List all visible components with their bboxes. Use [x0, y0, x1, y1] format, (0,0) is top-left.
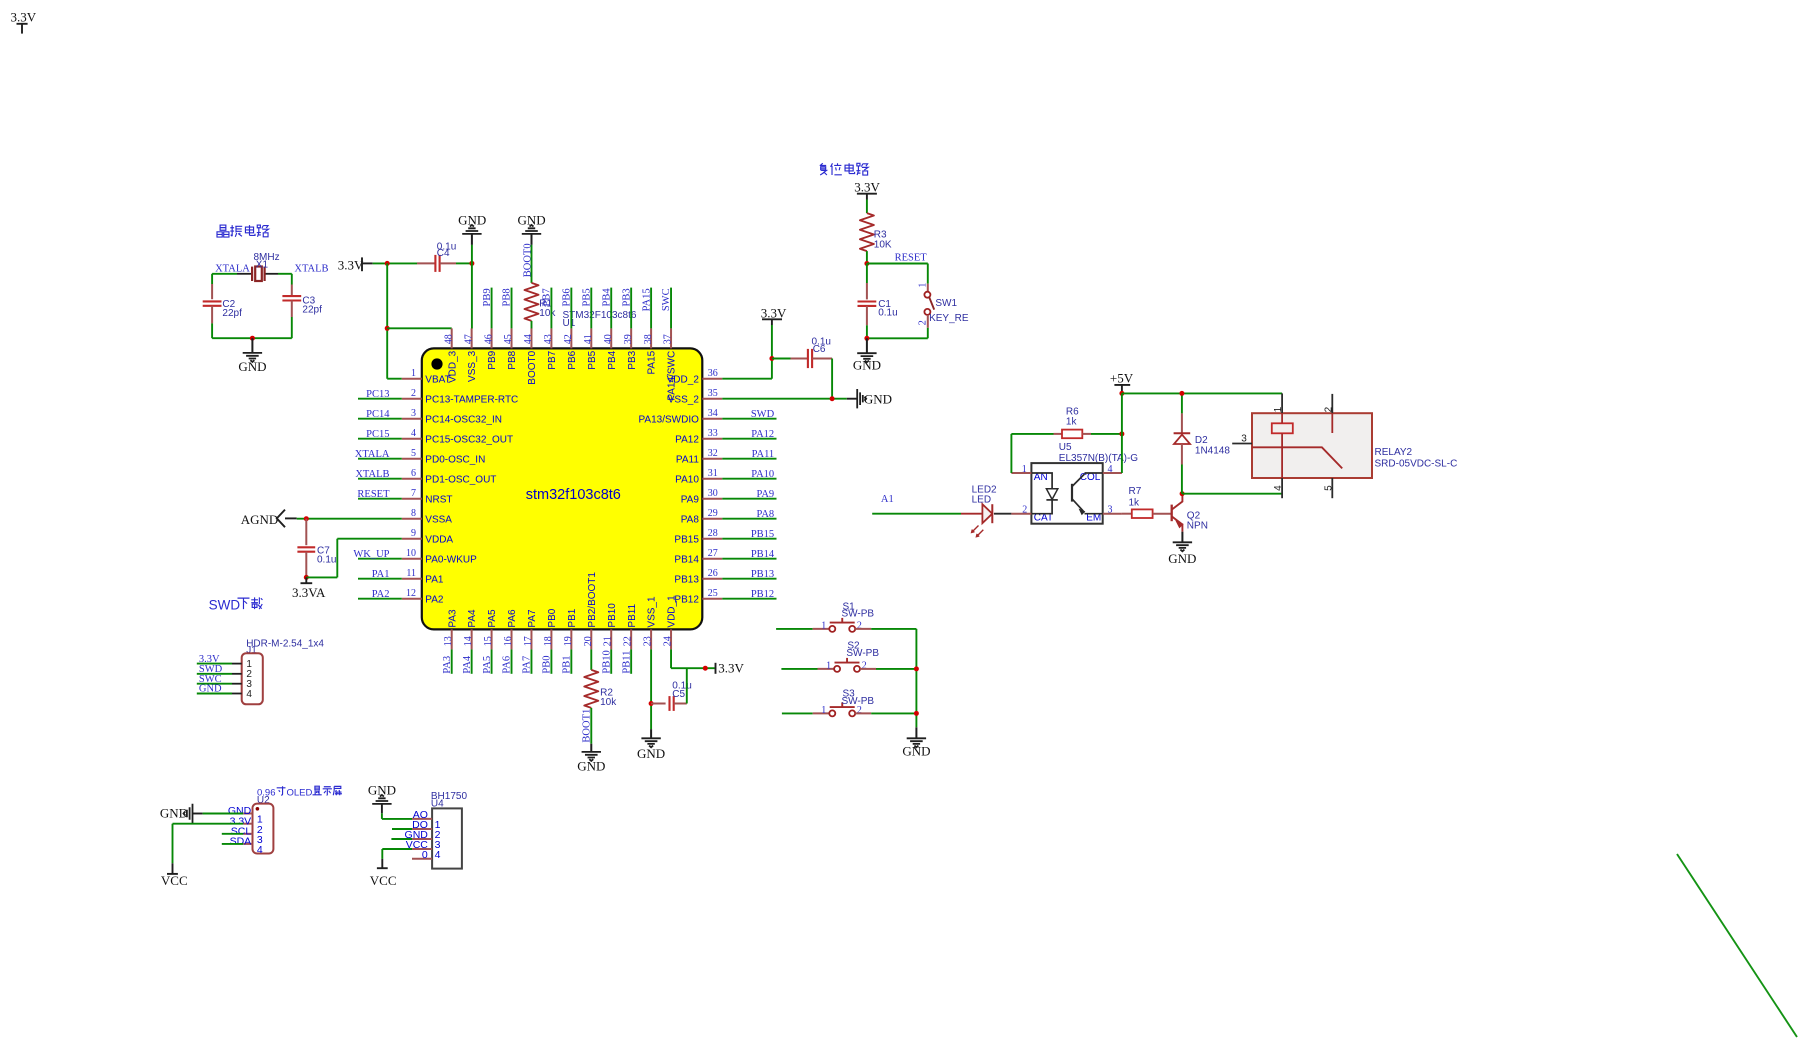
- wire to SW1 pin1: [927, 264, 929, 284]
- svg-text:KEY_RE: KEY_RE: [929, 313, 969, 324]
- svg-text:PB0: PB0: [542, 656, 553, 674]
- svg-text:PA13/SWDIO: PA13/SWDIO: [639, 414, 700, 425]
- svg-text:XTALA: XTALA: [355, 449, 390, 460]
- wire C6 down to VSS_2 net: [831, 359, 833, 399]
- wire VBAT branch vertical: [386, 263, 388, 378]
- svg-text:1: 1: [826, 660, 831, 671]
- svg-text:41: 41: [583, 334, 594, 344]
- wire RESET bottom rail: [867, 337, 928, 339]
- relay switch contact: [1252, 447, 1342, 468]
- wire R6 to +5V rail: [1082, 433, 1091, 435]
- wire net PA3 (bottom pin 13): [451, 649, 453, 673]
- svg-text:31: 31: [708, 468, 718, 479]
- wire net PB4 (top pin 40): [610, 288, 612, 329]
- svg-text:21: 21: [603, 636, 614, 646]
- pin 26 PB13 (right): [702, 578, 722, 580]
- svg-text:VSSA: VSSA: [425, 514, 452, 525]
- svg-text:PA0-WKUP: PA0-WKUP: [425, 554, 477, 565]
- svg-text:GND: GND: [864, 392, 892, 407]
- svg-text:BOOT0: BOOT0: [523, 243, 534, 277]
- relay pin 2: [1331, 394, 1333, 413]
- svg-text:48: 48: [443, 334, 454, 344]
- svg-text:4: 4: [257, 844, 263, 856]
- wire to S1 pin1: [776, 628, 813, 630]
- svg-text:VDD_1: VDD_1: [667, 595, 678, 628]
- svg-text:PB10: PB10: [601, 650, 612, 673]
- wire R7 to Q2 base: [1153, 513, 1172, 515]
- wire AGND to pin8 VSSA: [297, 518, 402, 520]
- svg-text:SDA: SDA: [230, 836, 252, 848]
- relay coil lead pin1-4: [1281, 433, 1283, 478]
- svg-text:PA5: PA5: [487, 609, 498, 628]
- svg-text:LED: LED: [972, 495, 991, 506]
- pin 8 VSSA (left): [402, 518, 422, 520]
- power port VCC (U2): [172, 863, 174, 874]
- svg-text:18: 18: [543, 636, 554, 646]
- svg-text:HDR-M-2.54_1x4: HDR-M-2.54_1x4: [246, 639, 324, 650]
- wire stray diagonal (bottom right): [1677, 854, 1797, 1037]
- svg-text:PA15: PA15: [641, 288, 652, 311]
- svg-text:SW-PB: SW-PB: [842, 609, 875, 620]
- relay pin 1: [1281, 393, 1283, 413]
- pin 44 BOOT0 (top): [530, 328, 532, 348]
- wire net PB14 (right pin 27): [722, 558, 776, 560]
- ground crystal GND: [251, 338, 253, 353]
- wire net PA4 (bottom pin 14): [471, 649, 473, 673]
- svg-text:C4: C4: [437, 248, 450, 259]
- pin 3 of U4 (GND): [412, 838, 432, 840]
- svg-text:NRST: NRST: [425, 494, 452, 505]
- svg-text:43: 43: [543, 334, 554, 344]
- pin 21 PB10 (bottom): [610, 629, 612, 649]
- pin 3 of U2 (SCL): [243, 833, 252, 835]
- svg-text:PA12: PA12: [751, 429, 774, 440]
- wire R1 to pin44 BOOT0: [531, 321, 533, 329]
- svg-text:RESET: RESET: [895, 252, 928, 263]
- pin 4 of J1 (GND): [232, 693, 242, 695]
- wire GND to U4 pin1: [381, 813, 383, 819]
- wire net PC13 (left pin 2): [358, 398, 402, 400]
- pin 22 PB11 (bottom): [630, 629, 632, 649]
- pin 0 of U4: [412, 858, 432, 860]
- pin 18 PB0 (bottom): [550, 629, 552, 649]
- wire net PA2 (left pin 12): [358, 598, 402, 600]
- relay pin 4: [1281, 478, 1283, 498]
- junction RESET node: [864, 261, 869, 266]
- svg-text:BOOT1: BOOT1: [582, 709, 593, 743]
- svg-text:VDD_3: VDD_3: [447, 350, 458, 383]
- wire net PA11 (right pin 32): [722, 458, 776, 460]
- pin 2 of U4 (DO): [412, 828, 432, 830]
- svg-text:A1: A1: [881, 494, 894, 505]
- relay pin 3: [1232, 443, 1252, 445]
- svg-text:PB15: PB15: [674, 534, 699, 545]
- pin 20 PB2/BOOT1 (bottom): [590, 629, 592, 649]
- junction crystal gnd: [250, 336, 255, 341]
- wire net PA15 (top pin 38): [650, 288, 652, 329]
- capacitor C5 0.1u: [651, 703, 666, 705]
- svg-text:14: 14: [463, 636, 474, 646]
- wire U4 pin2 DO stub: [392, 828, 412, 830]
- wire U2 pin2 to VCC: [173, 823, 244, 825]
- pin 28 PB15 (right): [702, 538, 722, 540]
- svg-text:2: 2: [918, 320, 929, 325]
- wire net PA10 (right pin 31): [722, 478, 776, 480]
- pin 12 PA2 (left): [402, 598, 422, 600]
- pin 3 PC14-OSC32_IN (left): [402, 418, 422, 420]
- svg-text:PB14: PB14: [751, 549, 775, 560]
- pin 41 PB5 (top): [590, 328, 592, 348]
- svg-text:PA7: PA7: [522, 656, 533, 674]
- wire net PB3 (top pin 39): [630, 288, 632, 329]
- wire S2 pin2 to GND rail: [860, 668, 876, 670]
- diode D2 1N4148: [1181, 393, 1183, 413]
- wire pin35 VSS_2 to GND: [722, 398, 847, 400]
- wire to pin48 VDD_3: [387, 327, 452, 329]
- ground GND below pin23: [650, 729, 652, 738]
- pin 11 PA1 (left): [402, 578, 422, 580]
- svg-text:2: 2: [1323, 406, 1334, 412]
- wire net A1: [872, 513, 961, 515]
- svg-text:PB4: PB4: [607, 350, 618, 369]
- svg-text:SWD: SWD: [209, 598, 241, 613]
- wire net SWC (top pin 37): [670, 288, 672, 329]
- svg-text:7: 7: [411, 488, 416, 499]
- svg-text:VSS_3: VSS_3: [467, 350, 478, 382]
- svg-text:PB2/BOOT1: PB2/BOOT1: [587, 572, 598, 628]
- svg-text:0.1u: 0.1u: [317, 554, 336, 565]
- pin 4 of U2 (SDA): [243, 843, 252, 845]
- wire net PB7 (top pin 43): [550, 288, 552, 329]
- svg-text:19: 19: [563, 636, 574, 646]
- pin 10 PA0-WKUP (left): [402, 558, 422, 560]
- wire GND to U2 pin1: [203, 813, 244, 815]
- svg-text:VSS_1: VSS_1: [647, 596, 658, 628]
- pin 31 PA10 (right): [702, 478, 722, 480]
- svg-text:25: 25: [708, 588, 718, 599]
- pin 38 PA15 (top): [650, 328, 652, 348]
- wire pin24 VDD_1 to 3.3V: [670, 649, 672, 668]
- svg-text:GND: GND: [199, 684, 222, 695]
- pin 16 PA6 (bottom): [511, 629, 513, 649]
- svg-text:4: 4: [435, 849, 441, 861]
- svg-text:PB9: PB9: [487, 350, 498, 369]
- svg-text:46: 46: [483, 334, 494, 344]
- wire R3 to junction: [866, 251, 868, 263]
- svg-text:PA11: PA11: [676, 454, 699, 465]
- pin 4 of U4 (VCC): [412, 848, 432, 850]
- svg-text:PC13: PC13: [366, 389, 389, 400]
- junction VDD_3 branch: [385, 326, 390, 331]
- svg-text:PB1: PB1: [562, 656, 573, 674]
- svg-text:SW1: SW1: [935, 298, 957, 309]
- junction S2-rail: [914, 666, 919, 671]
- svg-text:0.1u: 0.1u: [878, 308, 897, 319]
- svg-text:26: 26: [708, 568, 718, 579]
- pin 39 PB3 (top): [630, 328, 632, 348]
- svg-text:C6: C6: [813, 344, 826, 355]
- ground GND (bar, right of pin35): [847, 398, 857, 400]
- pin 29 PA8 (right): [702, 518, 722, 520]
- svg-text:3.3V: 3.3V: [718, 661, 744, 676]
- svg-text:PA8: PA8: [681, 514, 700, 525]
- svg-text:45: 45: [503, 334, 514, 344]
- svg-text:PB5: PB5: [587, 350, 598, 369]
- wire net PB15 (right pin 28): [722, 538, 776, 540]
- pin 13 PA3 (bottom): [451, 629, 453, 649]
- switch S3 SW-PB: [829, 710, 835, 716]
- svg-text:X1: X1: [256, 259, 269, 270]
- svg-text:C5: C5: [672, 689, 685, 700]
- svg-text:PB8: PB8: [502, 288, 513, 306]
- svg-text:44: 44: [523, 334, 534, 344]
- svg-text:PA4: PA4: [462, 655, 473, 673]
- pin 1 of U2 (GND): [243, 813, 252, 815]
- svg-text:OLED: OLED: [287, 788, 313, 799]
- pin 6 PD1-OSC_OUT (left): [402, 478, 422, 480]
- svg-text:37: 37: [663, 334, 674, 344]
- svg-text:22pf: 22pf: [302, 305, 322, 316]
- svg-text:PA12: PA12: [675, 434, 699, 445]
- svg-text:XTALA: XTALA: [215, 263, 250, 274]
- svg-text:39: 39: [623, 334, 634, 344]
- wire net XTALB (left pin 6): [358, 478, 402, 480]
- svg-text:3.3V: 3.3V: [854, 180, 880, 195]
- svg-text:SW-PB: SW-PB: [842, 696, 875, 707]
- svg-text:PA2: PA2: [425, 594, 444, 605]
- pin 9 VDDA (left): [402, 538, 422, 540]
- wire net PB6 (top pin 42): [570, 288, 572, 329]
- svg-text:AGND: AGND: [241, 512, 279, 527]
- svg-text:PA7: PA7: [527, 609, 538, 628]
- wire S3 pin2 to GND rail: [855, 712, 871, 714]
- op-amp U1 MCU stm32f103c8t6 body: [422, 348, 703, 629]
- svg-text:PA10: PA10: [751, 469, 774, 480]
- svg-text:PB3: PB3: [627, 350, 638, 369]
- wire U5 pin1 to R6: [1010, 434, 1012, 473]
- svg-text:GND: GND: [238, 359, 266, 374]
- svg-text:PD0-OSC_IN: PD0-OSC_IN: [425, 454, 485, 465]
- svg-text:1: 1: [1273, 406, 1284, 412]
- pin 1 VBAT (left): [402, 378, 422, 380]
- svg-text:PB15: PB15: [751, 529, 774, 540]
- svg-text:PA9: PA9: [756, 489, 774, 500]
- wire net PB1 (bottom pin 19): [570, 649, 572, 673]
- pin 5 PD0-OSC_IN (left): [402, 458, 422, 460]
- svg-text:SWD: SWD: [751, 409, 775, 420]
- svg-text:PB5: PB5: [581, 288, 592, 306]
- svg-text:3: 3: [1241, 434, 1247, 445]
- pin 14 PA4 (bottom): [471, 629, 473, 649]
- ground GND (reset): [866, 338, 868, 353]
- pin 43 PB7 (top): [550, 328, 552, 348]
- svg-text:PA3: PA3: [447, 609, 458, 628]
- ground GND (switches): [915, 727, 917, 738]
- svg-text:10k: 10k: [600, 697, 617, 708]
- svg-text:NPN: NPN: [1187, 520, 1208, 531]
- svg-text:R7: R7: [1129, 486, 1142, 497]
- pin-1 marker dot: [431, 358, 442, 369]
- svg-text:PB11: PB11: [627, 603, 638, 627]
- svg-text:5: 5: [1323, 485, 1334, 491]
- wire R2 to GND: [590, 708, 592, 744]
- svg-text:PB7: PB7: [547, 350, 558, 369]
- wire +5V down to U5 pin4: [1121, 434, 1123, 473]
- pin 32 PA11 (right): [702, 458, 722, 460]
- junction VDD_1/C5: [703, 666, 708, 671]
- pin 25 PB12 (right): [702, 598, 722, 600]
- wire U2 pin4 SDA stub: [222, 843, 243, 845]
- power port 3.3VA: [305, 577, 307, 583]
- wire C5 up to VDD_1 net: [686, 668, 688, 703]
- wire U4 pin4 VCC: [382, 848, 412, 850]
- svg-text:BOOT0: BOOT0: [527, 350, 538, 384]
- svg-text:PA10: PA10: [675, 474, 699, 485]
- resistor R6 1k: [1062, 430, 1082, 439]
- power port 3.3V (VDD_1): [715, 663, 717, 674]
- svg-text:22: 22: [623, 636, 634, 646]
- svg-text:3.3VA: 3.3VA: [292, 585, 326, 600]
- svg-text:2: 2: [1022, 505, 1027, 516]
- svg-text:PA8: PA8: [756, 509, 774, 520]
- svg-text:3: 3: [411, 408, 416, 419]
- pin 4 PC15-OSC32_OUT (left): [402, 438, 422, 440]
- wire net PB13 (right pin 26): [722, 578, 776, 580]
- svg-text:1k: 1k: [1066, 416, 1078, 427]
- junction rail-GND branch: [469, 261, 474, 266]
- relay coil: [1272, 423, 1293, 433]
- svg-text:47: 47: [463, 334, 474, 344]
- junction C6 branch: [769, 356, 774, 361]
- wire to C6: [772, 358, 791, 360]
- junction C7 top: [304, 516, 309, 521]
- pin 40 PB4 (top): [610, 328, 612, 348]
- title 晶振电路: [217, 225, 229, 237]
- svg-text:GND: GND: [853, 357, 881, 372]
- wire net PB9 (top pin 46): [491, 288, 493, 329]
- switch S2 SW-PB: [834, 666, 840, 672]
- svg-text:SRD-05VDC-SL-C: SRD-05VDC-SL-C: [1375, 459, 1458, 470]
- svg-text:PB3: PB3: [621, 288, 632, 306]
- svg-text:PB6: PB6: [562, 288, 573, 306]
- pin 1 of J1 (3.3V): [232, 663, 242, 665]
- svg-text:10K: 10K: [874, 240, 892, 251]
- svg-text:PB6: PB6: [567, 350, 578, 369]
- wire crystal top rail: [212, 273, 237, 275]
- svg-text:XTALB: XTALB: [355, 469, 389, 480]
- svg-text:PB13: PB13: [674, 574, 699, 585]
- pin 17 PA7 (bottom): [530, 629, 532, 649]
- wire pin36 VDD_2 to 3.3V: [722, 378, 772, 380]
- svg-text:PA1: PA1: [425, 574, 444, 585]
- svg-text:5: 5: [411, 448, 416, 459]
- wire LED2 to U5 pin2: [994, 513, 1011, 515]
- svg-text:GND: GND: [902, 743, 930, 758]
- wire crystal right branch: [291, 274, 293, 285]
- svg-text:23: 23: [643, 636, 654, 646]
- wire net PA6 (bottom pin 16): [511, 649, 513, 673]
- pin 30 PA9 (right): [702, 498, 722, 500]
- junction +5V: [1119, 391, 1124, 396]
- svg-text:6: 6: [411, 468, 416, 479]
- svg-text:stm32f103c8t6: stm32f103c8t6: [526, 487, 621, 503]
- svg-text:PB14: PB14: [674, 554, 699, 565]
- wire pin23 VSS_1 down: [650, 649, 652, 729]
- pin 7 NRST (left): [402, 498, 422, 500]
- switch SW1 KEY_RE: [927, 284, 929, 292]
- svg-text:PA14/SWC: PA14/SWC: [667, 351, 678, 401]
- svg-text:PB12: PB12: [674, 594, 699, 605]
- connector U4 body: [432, 808, 462, 868]
- pin 27 PB14 (right): [702, 558, 722, 560]
- svg-text:29: 29: [708, 508, 718, 519]
- junction R6/+5V: [1119, 431, 1124, 436]
- wire net PB10 (bottom pin 21): [610, 649, 612, 673]
- pin 45 PB8 (top): [511, 328, 513, 348]
- svg-text:PB12: PB12: [751, 589, 774, 600]
- svg-text:33: 33: [708, 428, 718, 439]
- junction C5 branch: [649, 701, 654, 706]
- wire to S2 pin1: [781, 668, 817, 670]
- capacitor C2 22pf: [203, 300, 222, 302]
- svg-text:PA6: PA6: [502, 656, 513, 674]
- wire net WK_UP (left pin 10): [358, 558, 402, 560]
- U5 internal led: [1031, 473, 1052, 489]
- svg-text:34: 34: [708, 408, 718, 419]
- svg-text:40: 40: [603, 334, 614, 344]
- wire Q2 collector to relay pin4: [1182, 493, 1282, 495]
- svg-text:PA1: PA1: [372, 569, 390, 580]
- svg-text:PB1: PB1: [567, 608, 578, 627]
- junction rail-VBAT branch: [385, 261, 390, 266]
- wire to S3 pin1: [782, 712, 813, 714]
- pin 2 of J1 (SWD): [232, 673, 242, 675]
- wire net PB0 (bottom pin 18): [550, 649, 552, 673]
- svg-text:4: 4: [1108, 464, 1113, 475]
- wire crystal left branch: [211, 274, 213, 284]
- resistor R2 10k: [584, 670, 598, 708]
- pin 3 of J1 (SWC): [232, 683, 242, 685]
- wire net PC14 (left pin 3): [358, 418, 402, 420]
- pin 37 PA14/SWC (top): [670, 328, 672, 348]
- svg-text:VDDA: VDDA: [425, 534, 453, 545]
- wire 3.3V to R3: [866, 200, 868, 214]
- svg-text:11: 11: [406, 568, 416, 579]
- svg-text:PA6: PA6: [507, 609, 518, 628]
- svg-text:SW-PB: SW-PB: [846, 648, 879, 659]
- junction S3-rail: [914, 711, 919, 716]
- junction Q2 collector: [1180, 491, 1185, 496]
- wire SW1 pin2 down: [927, 328, 929, 339]
- wire U2 pin3 SCL stub: [222, 833, 243, 835]
- svg-text:PC15-OSC32_OUT: PC15-OSC32_OUT: [425, 434, 513, 445]
- wire to pin1 VBAT: [387, 378, 402, 380]
- capacitor C7 0.1u: [305, 519, 307, 546]
- svg-text:8: 8: [411, 508, 416, 519]
- resistor R7 1k: [1132, 509, 1153, 518]
- transistor Q2 NPN: [1171, 505, 1173, 522]
- svg-text:10: 10: [406, 548, 416, 559]
- pin 24 VDD_1 (bottom): [670, 629, 672, 649]
- wire net PC15 (left pin 4): [358, 438, 402, 440]
- pin 15 PA5 (bottom): [491, 629, 493, 649]
- svg-text:1N4148: 1N4148: [1195, 445, 1230, 456]
- wire crystal bottom rail: [212, 337, 292, 339]
- junction C7 bottom: [304, 575, 309, 580]
- svg-text:PB8: PB8: [507, 350, 518, 369]
- wire GND to pin47: [471, 245, 473, 329]
- svg-text:16: 16: [503, 636, 514, 646]
